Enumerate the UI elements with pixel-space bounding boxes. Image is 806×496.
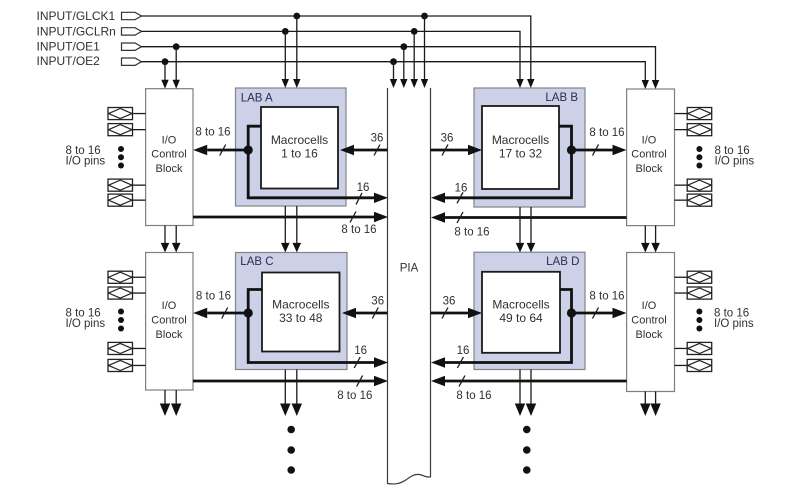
PIA block with torn bottom edge [388,88,431,484]
io pin box 1 [108,108,146,120]
bus PIA to LAB D 36 [431,296,483,319]
bus L-path LAB A 16 feedback [248,126,374,198]
I/O control block top-right [627,89,675,226]
pin group lower-left [66,271,146,371]
svg-text:8 to 16: 8 to 16 [341,224,376,236]
arrowhead 16 to PIA left [374,193,388,203]
svg-text:LAB C: LAB C [240,256,273,268]
svg-text:INPUT/OE1: INPUT/OE1 [37,39,101,53]
svg-text:8 to 16: 8 to 16 [196,291,231,303]
wire OE1 horizontal+drop to right I/O [142,47,660,89]
svg-text:I/O pins: I/O pins [715,156,755,168]
wire LAB A to LAB C a [281,206,290,252]
svg-text:I/O pins: I/O pins [714,318,754,330]
LAB B block [474,88,585,207]
bus LAB B to I/O 8 to 16 [572,127,627,156]
bus LAB C to I/O 8 to 16 [193,291,248,319]
ellipsis pins [118,309,124,315]
ellipsis below LAB C [287,426,295,474]
input pin INPUT/OE2 [37,54,142,68]
io pin box 4 [675,359,712,371]
bus I/O-left to PIA 8 to 16 lower [193,376,388,403]
svg-text:I/O: I/O [162,300,177,312]
io pin box 4 [675,194,712,206]
LAB C block [236,253,348,370]
LAB D block [474,252,585,369]
svg-text:16: 16 [457,345,470,357]
junction node LAB D [567,308,576,317]
io pin box 2 [675,124,712,136]
svg-text:I/O: I/O [642,135,657,147]
svg-text:Block: Block [636,329,663,341]
junction node LAB B [567,145,576,154]
svg-text:I/O pins: I/O pins [66,156,106,168]
arrowhead 16 to PIA right [431,193,445,203]
io pin box 3 [108,179,146,191]
io pin box 2 [108,124,146,136]
pin group upper-left [66,108,146,207]
svg-text:Macrocells: Macrocells [272,297,329,311]
io pin box 1 [108,271,146,283]
bus I/O-left to PIA 8 to 16 [193,212,388,237]
slash 16 lower-left [354,357,360,368]
wire left I/O bottom exit b [171,390,181,416]
bus I/O-right to PIA 8 to 16 lower [431,376,627,403]
input pin INPUT/GCLRn [37,25,142,39]
junction+branch GCLRn to PIA [411,28,418,88]
svg-text:8 to 16: 8 to 16 [456,390,491,402]
wire LAB C bottom exit a [280,370,290,417]
LAB A block [236,88,347,206]
wire LAB D bottom exit a [515,370,525,417]
svg-text:Control: Control [151,315,186,327]
junction+branch GLCK1 to LAB A [293,13,300,88]
wire LAB B to LAB D a [516,207,525,252]
wire OE2 horizontal+drop to right I/O [142,62,650,89]
bus I/O-right to PIA 8 to 16 [431,212,627,239]
junction+branch OE1 to PIA [400,43,407,88]
junction+branch OE2 to left I/O [161,58,168,88]
wire right I/O top to bottom a [641,226,650,253]
bus LAB A to I/O 8 to 16 [193,127,248,156]
wire GCLRn horizontal+drop to LAB B [142,31,524,88]
svg-text:Control: Control [631,149,666,161]
wire GLCK1 horizontal+drop to LAB B [142,16,535,88]
wire LAB C bottom exit b [292,370,302,417]
ellipsis pins [696,146,702,152]
svg-text:33 to 48: 33 to 48 [279,311,323,325]
slash 16 upper-left [356,193,362,205]
slash 16 upper-right [457,192,463,203]
svg-text:INPUT/GLCK1: INPUT/GLCK1 [37,9,116,23]
input pin INPUT/GLCK1 [37,9,142,23]
wire LAB B to LAB D b [527,207,536,252]
svg-text:Block: Block [156,329,183,341]
io pin box 4 [108,194,146,206]
svg-text:8 to 16: 8 to 16 [454,227,489,239]
svg-text:36: 36 [443,296,456,308]
bus L-path LAB B 16 feedback [445,126,572,198]
bus L-path LAB C 16 feedback [248,290,374,363]
pin group lower-right [675,271,754,371]
svg-text:Macrocells: Macrocells [271,133,328,147]
bus LAB D to I/O 8 to 16 [572,291,627,319]
svg-text:I/O: I/O [162,135,177,147]
svg-text:Macrocells: Macrocells [492,297,549,311]
I/O control block bottom-right [627,253,675,392]
wire right I/O bottom exit a [640,392,650,417]
ellipsis below LAB D [523,426,531,474]
io pin box 3 [675,342,712,354]
svg-text:Block: Block [156,163,183,175]
svg-text:INPUT/OE2: INPUT/OE2 [37,54,101,68]
svg-text:LAB B: LAB B [545,92,578,104]
svg-text:36: 36 [441,133,454,145]
junction+branch OE2 to PIA [390,58,397,88]
I/O control block bottom-left [146,253,193,391]
svg-text:8 to 16: 8 to 16 [337,390,372,402]
io pin box 1 [675,271,712,283]
svg-text:8 to 16: 8 to 16 [589,127,624,139]
bus PIA to LAB A 36 [340,133,388,156]
slash 16 lower-right [457,357,463,368]
wire right I/O top to bottom b [651,226,660,253]
svg-text:16: 16 [455,183,468,195]
ellipsis pins [118,146,124,152]
svg-text:LAB D: LAB D [546,256,579,268]
svg-text:PIA: PIA [400,262,419,274]
svg-text:I/O: I/O [642,300,657,312]
bus L-path LAB D 16 feedback [445,290,572,363]
pin group upper-right [675,108,755,207]
wire left I/O bottom exit a [160,390,170,416]
io pin box 4 [108,359,146,371]
wire right I/O bottom exit b [650,392,660,417]
ellipsis pins [696,309,702,315]
io pin box 3 [108,342,146,354]
svg-text:8 to 16: 8 to 16 [195,127,230,139]
junction node LAB A [244,145,253,154]
svg-text:16: 16 [354,345,367,357]
input pin INPUT/OE1 [37,39,142,53]
svg-text:INPUT/GCLRn: INPUT/GCLRn [37,25,116,39]
svg-text:36: 36 [371,296,384,308]
junction+branch GLCK1 to PIA [421,13,428,88]
wire left I/O top to bottom a [161,226,170,253]
svg-text:Macrocells: Macrocells [492,133,549,147]
svg-text:Control: Control [631,315,666,327]
arrowhead 16 to PIA left lower [374,357,388,367]
svg-text:Block: Block [636,163,663,175]
svg-text:I/O pins: I/O pins [66,318,106,330]
wire LAB D bottom exit b [526,370,536,417]
bus PIA to LAB C 36 [342,296,388,319]
io pin box 2 [675,287,712,299]
svg-text:36: 36 [371,133,384,145]
svg-text:LAB A: LAB A [241,92,273,104]
wire LAB A to LAB C b [293,206,302,252]
io pin box 2 [108,287,146,299]
io pin box 3 [675,179,712,191]
junction+branch GCLRn to LAB A [282,28,289,88]
svg-text:17 to 32: 17 to 32 [499,147,543,161]
junction node LAB C [244,308,253,317]
svg-text:49 to 64: 49 to 64 [499,311,543,325]
bus PIA to LAB B 36 [431,133,483,156]
svg-text:1 to 16: 1 to 16 [281,147,318,161]
io pin box 1 [675,108,712,120]
svg-text:8 to 16: 8 to 16 [589,291,624,303]
svg-text:Control: Control [151,149,186,161]
svg-text:16: 16 [357,182,370,194]
junction+branch OE1 to left I/O [173,43,180,88]
I/O control block top-left [146,89,193,226]
wire left I/O top to bottom b [172,226,181,253]
arrowhead 16 to PIA right lower [431,357,445,367]
